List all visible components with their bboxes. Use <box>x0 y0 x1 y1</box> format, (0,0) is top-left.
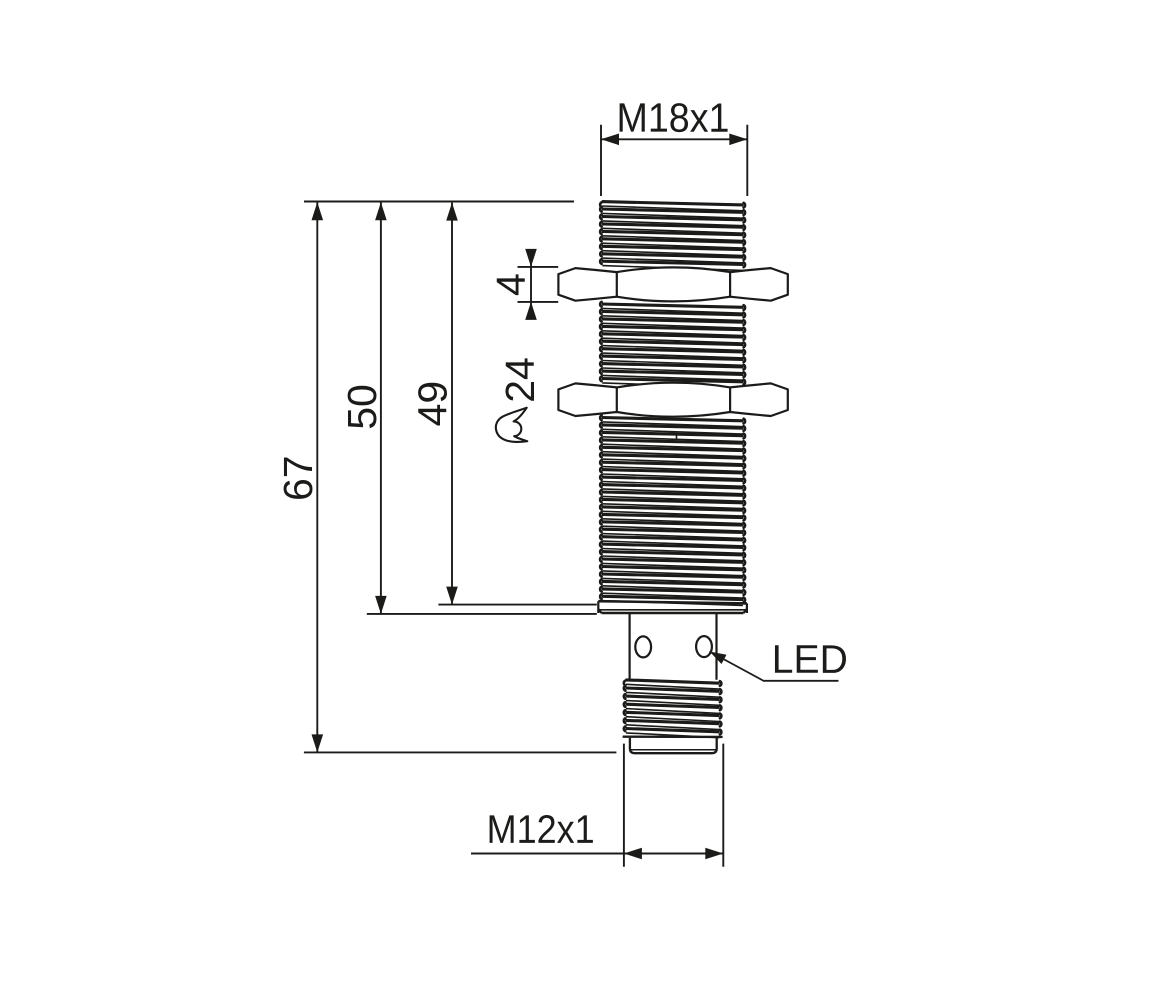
dimension line 49 <box>451 203 453 605</box>
bottom extension line for dim 67 <box>304 751 617 753</box>
svg-text:4: 4 <box>488 273 534 296</box>
M18x1 dimension line <box>601 138 747 140</box>
connector end cap <box>630 738 717 753</box>
svg-text:M12x1: M12x1 <box>487 808 595 852</box>
LED housing cylinder <box>630 614 717 680</box>
M18 threaded barrel: lower thread segment <box>600 415 745 605</box>
M12 connector thread <box>624 680 722 738</box>
dimension line 67 <box>316 202 318 752</box>
LED leader line <box>710 652 839 681</box>
4 mm dimension line <box>530 251 532 319</box>
svg-text:24: 24 <box>497 357 543 403</box>
top extension line at barrel top <box>304 201 574 203</box>
svg-text:49: 49 <box>409 381 455 427</box>
4 mm nut dimension: extension ticks <box>518 267 559 302</box>
hex nut 2 (lower) <box>558 383 787 417</box>
M18 threaded barrel: upper thread segment <box>600 202 745 271</box>
dimension line 50 <box>380 202 382 614</box>
M12x1 dimension: extension lines <box>624 744 723 867</box>
hex nut 1 (upper, 4 mm) <box>558 267 787 301</box>
barrel bottom collar <box>598 601 747 613</box>
stray mark on thread <box>676 434 678 439</box>
M18x1 dimension: extension lines <box>601 125 747 196</box>
wrench symbol <box>496 408 527 442</box>
svg-text:67: 67 <box>275 455 321 501</box>
svg-text:LED: LED <box>772 638 848 682</box>
M12x1 dimension line <box>471 853 723 855</box>
LED window left <box>635 636 651 657</box>
bottom extension line for dim 50 <box>367 613 597 615</box>
svg-text:M18x1: M18x1 <box>616 95 729 141</box>
LED window right <box>696 636 712 657</box>
M18 threaded barrel: thread segment between nuts <box>600 302 745 388</box>
bottom extension line for dim 49 <box>438 604 596 606</box>
svg-text:50: 50 <box>339 384 385 430</box>
